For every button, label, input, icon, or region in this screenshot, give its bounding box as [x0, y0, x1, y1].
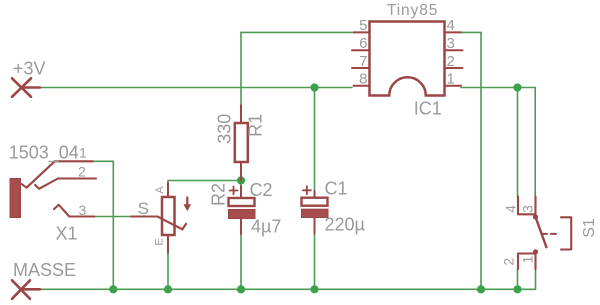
svg-text:R1: R1 [246, 114, 266, 137]
svg-text:220µ: 220µ [325, 215, 365, 235]
svg-text:2: 2 [78, 164, 86, 180]
svg-text:X1: X1 [56, 224, 78, 244]
svg-text:1: 1 [79, 145, 87, 161]
svg-text:8: 8 [359, 71, 367, 88]
svg-text:+3V: +3V [13, 58, 46, 78]
svg-text:3: 3 [520, 205, 536, 213]
svg-text:6: 6 [359, 35, 367, 52]
svg-text:Tiny85: Tiny85 [387, 2, 438, 19]
svg-text:5: 5 [359, 17, 367, 34]
svg-text:7: 7 [359, 53, 367, 70]
svg-text:1: 1 [520, 256, 536, 264]
svg-text:1503_04: 1503_04 [9, 143, 79, 164]
svg-text:4: 4 [502, 205, 518, 213]
svg-text:3: 3 [79, 202, 87, 218]
svg-text:330: 330 [215, 114, 235, 144]
svg-text:E: E [153, 238, 165, 245]
svg-text:S: S [138, 199, 149, 218]
svg-text:3: 3 [447, 35, 455, 52]
svg-text:R2: R2 [209, 183, 229, 206]
svg-text:S1: S1 [581, 218, 598, 238]
svg-text:4µ7: 4µ7 [251, 216, 281, 236]
svg-text:A: A [154, 186, 166, 194]
svg-text:C1: C1 [325, 178, 348, 198]
svg-text:1: 1 [447, 71, 455, 88]
svg-text:IC1: IC1 [414, 99, 442, 119]
svg-text:2: 2 [501, 258, 517, 266]
svg-text:4: 4 [447, 17, 455, 34]
svg-text:2: 2 [447, 53, 455, 70]
svg-text:C2: C2 [250, 180, 273, 200]
svg-text:MASSE: MASSE [13, 260, 76, 280]
